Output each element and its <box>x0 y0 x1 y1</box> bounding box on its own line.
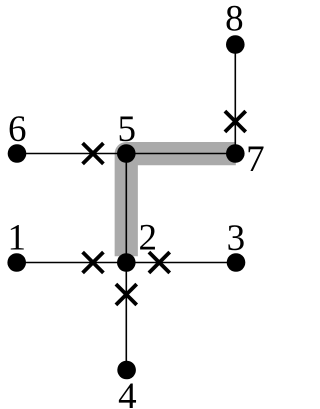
wire 5-7 <box>126 153 235 155</box>
svg-text:2: 2 <box>139 217 158 258</box>
cross on edge 7-8 <box>225 111 246 132</box>
wire 1-2 <box>17 262 126 264</box>
cross on edge 1-2 <box>83 252 104 273</box>
node 8 <box>226 35 245 54</box>
cross on edge 6-5 <box>83 143 104 164</box>
svg-text:1: 1 <box>7 217 26 258</box>
svg-text:5: 5 <box>117 109 136 150</box>
wire 6-5 <box>17 153 126 155</box>
wire 2-5 <box>125 154 127 263</box>
node 1 <box>7 253 26 272</box>
cross on edge 2-3 <box>149 252 170 273</box>
cross on edge 2-4 <box>116 284 137 305</box>
wire 2-4 <box>125 263 127 371</box>
svg-text:8: 8 <box>225 0 244 40</box>
node 7 <box>226 144 245 163</box>
node 5 <box>117 144 136 163</box>
node 6 <box>8 144 27 163</box>
node 4 <box>117 361 136 380</box>
svg-text:7: 7 <box>246 139 265 180</box>
highlighted path 2-5-7 (thick gray L) <box>126 154 236 257</box>
wire 2-3 <box>126 262 235 264</box>
node 2 <box>117 253 136 272</box>
node 3 <box>227 253 246 272</box>
svg-text:3: 3 <box>227 218 246 259</box>
svg-text:6: 6 <box>8 109 27 150</box>
wire 7-8 <box>234 45 236 154</box>
svg-text:4: 4 <box>118 376 137 409</box>
